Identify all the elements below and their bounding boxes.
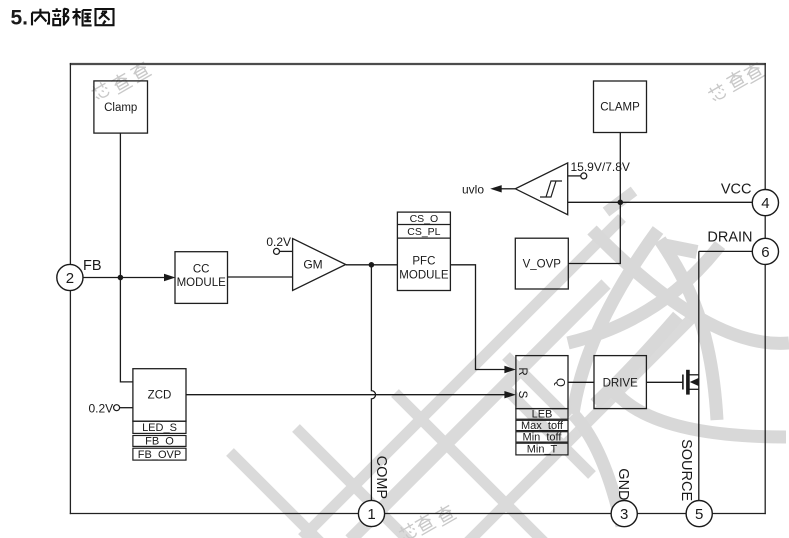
svg-text:1: 1	[367, 506, 375, 523]
svg-text:5: 5	[695, 506, 703, 523]
svg-text:4: 4	[761, 195, 769, 212]
svg-text:0.2V: 0.2V	[266, 235, 291, 249]
outer border left	[69, 63, 71, 514]
wire PFC out to R input	[450, 265, 516, 373]
wire to DRAIN pin	[699, 250, 753, 252]
block PFC MODULE	[397, 212, 450, 290]
svg-text:V_OVP: V_OVP	[523, 259, 562, 271]
terminal 0.2V GM	[266, 235, 292, 255]
wire V_OVP to VCC node	[568, 202, 620, 263]
terminal 15.9V/7.8V	[568, 160, 630, 179]
comparator U1 uvlo	[515, 163, 567, 215]
svg-text:COMP: COMP	[373, 456, 389, 500]
svg-text:SOURCE: SOURCE	[678, 439, 694, 501]
svg-text:0.2V: 0.2V	[89, 401, 114, 415]
wire COMP vertical with hop	[371, 265, 375, 501]
svg-text:MODULE: MODULE	[177, 277, 227, 289]
svg-text:uvlo: uvlo	[462, 182, 484, 196]
svg-text:6: 6	[761, 244, 769, 261]
watermark lattice bar	[230, 191, 700, 538]
svg-text:MODULE: MODULE	[399, 269, 449, 281]
svg-text:CLAMP: CLAMP	[600, 102, 640, 114]
svg-text:5.: 5.	[11, 7, 29, 30]
svg-text:ZCD: ZCD	[148, 390, 172, 402]
transistor Q1 MOSFET	[683, 370, 699, 395]
title CJK tu	[96, 9, 114, 25]
wire CC to GM	[228, 276, 293, 278]
wire CLAMP down	[619, 133, 621, 203]
svg-text:GM: GM	[303, 258, 322, 272]
svg-text:Min_toff: Min_toff	[523, 431, 563, 443]
svg-text:FB: FB	[83, 258, 102, 274]
svg-text:VCC: VCC	[721, 182, 752, 198]
svg-text:DRAIN: DRAIN	[707, 229, 752, 245]
junction COMP node	[369, 262, 375, 268]
outer border top	[70, 63, 766, 65]
block CLAMP	[594, 81, 647, 133]
svg-text:Clamp: Clamp	[104, 102, 137, 114]
watermark text bottom	[397, 503, 457, 538]
outer border bottom	[70, 513, 766, 515]
pin 4 VCC	[721, 182, 779, 216]
svg-text:R: R	[516, 367, 528, 375]
title CJK bu	[52, 8, 68, 25]
svg-text:PFC: PFC	[412, 256, 435, 268]
pin 3 GND	[611, 468, 637, 526]
svg-text:CS_PL: CS_PL	[407, 226, 440, 238]
watermark text top-left	[90, 59, 152, 101]
op-amp GM	[293, 239, 346, 291]
svg-text:DRIVE: DRIVE	[603, 377, 638, 389]
watermark text top-right	[707, 60, 766, 103]
junction FB/Clamp	[118, 275, 124, 281]
svg-text:LED_S: LED_S	[142, 422, 177, 434]
svg-text:S: S	[516, 391, 528, 399]
wire GM out to PFC	[346, 264, 398, 266]
svg-text:3: 3	[620, 506, 628, 523]
svg-text:15.9V/7.8V: 15.9V/7.8V	[571, 160, 630, 174]
block ZCD	[133, 369, 186, 461]
wire FB to CC MODULE	[83, 274, 176, 281]
junction VCC node	[618, 200, 624, 206]
svg-text:CS_O: CS_O	[410, 213, 439, 225]
block CC MODULE	[175, 252, 228, 304]
pin 6 DRAIN	[707, 229, 778, 264]
title CJK nei	[32, 9, 49, 26]
svg-text:Max_toff: Max_toff	[521, 420, 564, 432]
svg-text:FB_OVP: FB_OVP	[138, 449, 181, 461]
terminal 0.2V ZCD	[89, 401, 133, 415]
latch RS	[516, 356, 568, 456]
wire comparator to VCC pin	[568, 201, 753, 203]
outer border right	[764, 63, 766, 514]
wire Clamp down to ZCD	[120, 133, 132, 382]
svg-text:2: 2	[66, 270, 74, 287]
svg-text:CC: CC	[193, 264, 210, 276]
block DRIVE	[594, 356, 646, 409]
svg-text:LEB: LEB	[532, 408, 553, 420]
wire drain-source vertical	[698, 251, 700, 500]
block V_OVP	[515, 238, 568, 289]
pin 2 FB	[57, 258, 102, 291]
svg-text:FB_O: FB_O	[145, 436, 174, 448]
wire comparator out uvlo	[462, 182, 515, 196]
pin 5 SOURCE	[678, 439, 713, 527]
svg-text:GND: GND	[615, 468, 631, 500]
title CJK kuang	[72, 8, 91, 25]
svg-text:Min_T: Min_T	[527, 444, 558, 456]
svg-text:Q: Q	[554, 378, 566, 387]
wire ZCD out to S input with hop	[186, 391, 516, 398]
block Clamp	[94, 81, 148, 133]
wire Q to DRIVE	[568, 381, 594, 383]
pin 1 COMP	[358, 456, 389, 527]
watermark arcs	[568, 230, 789, 526]
wire DRIVE to gate	[646, 381, 682, 383]
